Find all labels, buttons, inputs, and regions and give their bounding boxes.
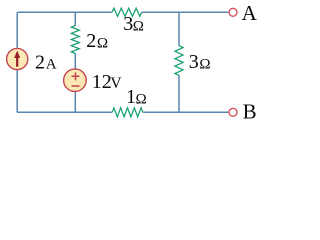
svg-text:3: 3 xyxy=(123,13,133,35)
svg-text:1: 1 xyxy=(126,86,136,108)
svg-text:A: A xyxy=(242,1,258,25)
svg-text:B: B xyxy=(243,99,257,123)
svg-text:2: 2 xyxy=(86,30,96,52)
svg-text:Ω: Ω xyxy=(97,35,108,51)
svg-text:3: 3 xyxy=(189,51,199,73)
svg-text:Ω: Ω xyxy=(133,18,144,34)
svg-text:2: 2 xyxy=(35,51,45,73)
svg-text:12: 12 xyxy=(92,71,112,93)
svg-text:A: A xyxy=(46,56,57,72)
svg-text:Ω: Ω xyxy=(199,57,210,73)
svg-text:Ω: Ω xyxy=(136,92,147,108)
svg-text:V: V xyxy=(110,75,122,92)
